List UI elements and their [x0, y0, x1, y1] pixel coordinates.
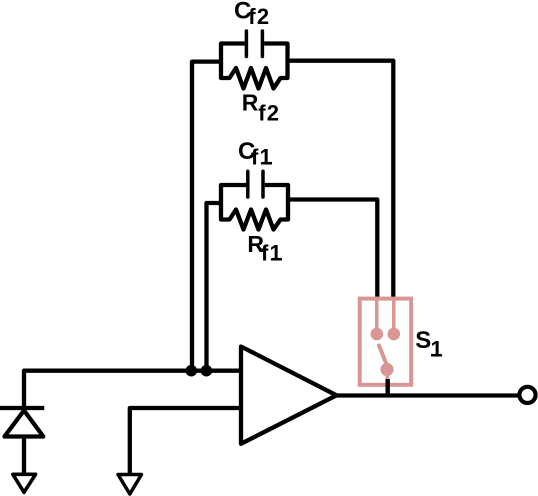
svg-text:S: S	[415, 327, 431, 354]
svg-text:f1: f1	[261, 241, 283, 266]
svg-text:f2: f2	[258, 101, 280, 126]
svg-text:f2: f2	[248, 4, 270, 29]
svg-text:1: 1	[431, 337, 443, 362]
svg-text:f1: f1	[251, 145, 273, 170]
svg-text:R: R	[242, 90, 259, 116]
